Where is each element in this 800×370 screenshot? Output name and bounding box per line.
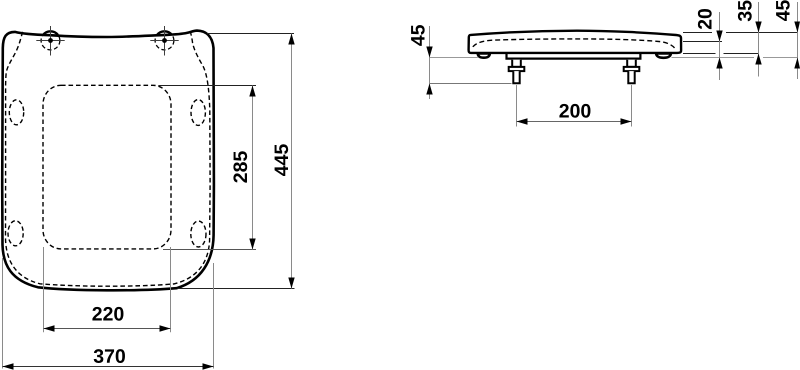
hinge hole left: center cross vertical xyxy=(50,26,52,56)
dimension 200: text xyxy=(559,104,590,118)
extension line right for 370 xyxy=(213,263,215,369)
extension line B from seat lip right (y=41.2) xyxy=(683,41,722,43)
bumper left (side view) xyxy=(478,53,490,57)
extension line A from seat top right (y=32) xyxy=(683,32,798,34)
hinge hole left: center dot xyxy=(48,38,53,43)
bolt right (side view): shaft xyxy=(628,71,634,83)
dimension 45 left: lower arrow (points up to 83.3) xyxy=(426,84,432,95)
extension line left for 220 xyxy=(43,247,45,332)
extension line from seat bottom edge (445 bottom reference) xyxy=(178,288,295,290)
dimension 445: text xyxy=(275,144,289,176)
dimension 45 right: text xyxy=(776,0,790,21)
dimension 45 right: line xyxy=(797,2,799,79)
extension line left for 370 xyxy=(2,258,4,369)
dimension 285: bottom arrow xyxy=(249,239,255,250)
dimension 445: bottom arrow xyxy=(288,278,294,289)
bumper right (side view) xyxy=(656,53,671,57)
extension line seat bottom plane left (45 top reference) xyxy=(430,57,478,59)
dimension 35: upper arrow (points down to y=31.9) xyxy=(755,22,761,33)
dimension 45 right: upper arrow (points down to y=31.9) xyxy=(794,22,800,33)
dimension 35: line xyxy=(758,2,760,77)
bolt left (side view): flange xyxy=(509,67,525,71)
hinge hole right: center cross horizontal xyxy=(150,40,178,42)
extension line right for 220 xyxy=(170,247,172,332)
dimension 445: top arrow xyxy=(288,34,294,45)
dimension 370: left arrow xyxy=(3,363,14,369)
dimension 220: line xyxy=(44,328,171,330)
bumper top-left (dashed ellipse) xyxy=(9,100,23,125)
dimension 370: text xyxy=(94,349,125,363)
hinge hole right: dashed circle xyxy=(155,31,174,50)
hinge hole left: dashed circle xyxy=(41,31,60,50)
dimension 45 left: line xyxy=(429,26,431,99)
dimension 370: line xyxy=(3,366,214,368)
seat outer outline (top view) xyxy=(2,31,214,291)
bolt right (side view): stem xyxy=(627,60,636,67)
dimension 45 left: text xyxy=(411,25,425,46)
dimension 20: upper arrow (points down to y=41.2) xyxy=(716,31,722,42)
dimension 35: lower arrow (points up to y=53) xyxy=(755,54,761,65)
bumper top-right (dashed ellipse) xyxy=(191,100,205,126)
dimension 200: right arrow xyxy=(621,118,632,124)
hinge plate under seat (side view) xyxy=(507,54,641,59)
extension line right bolt (200 right reference) xyxy=(631,85,633,127)
bumper bottom-right (dashed ellipse) xyxy=(191,221,206,247)
bolt left (side view): shaft xyxy=(513,71,519,83)
extension line bolt bottom (45 bottom reference) xyxy=(430,83,512,85)
dimension 200: left arrow xyxy=(517,118,528,124)
dimension 445: line xyxy=(291,34,293,289)
hinge hole right: solid top arc xyxy=(157,31,172,35)
dimension 285: line xyxy=(252,86,254,250)
dimension 45 right: lower arrow (points up to y=57.5) xyxy=(794,58,800,69)
seat opening dashed outline (top view) xyxy=(43,85,171,249)
dimension 220: right arrow xyxy=(160,325,171,331)
extension line left bolt (200 left reference) xyxy=(516,85,518,127)
dimension 45 left: upper arrow (points down to 57.2) xyxy=(426,47,432,58)
dimension 20: text xyxy=(698,9,712,29)
extension line D seat plane right (y=57.5) xyxy=(672,57,798,59)
dimension 285: top arrow xyxy=(249,86,255,97)
extension line from seat top edge (445 top reference) xyxy=(207,33,294,35)
extension line C from seat bottom right (y=53) xyxy=(683,53,759,55)
bumper bottom-left (dashed ellipse) xyxy=(8,221,23,246)
extension line from opening top edge (285 top reference) xyxy=(158,85,256,87)
seat ring dashed outline (top view) xyxy=(6,32,211,286)
dimension 200: line xyxy=(517,121,632,123)
dimension 220: text xyxy=(92,307,123,321)
hinge hole left: solid top arc xyxy=(43,31,58,35)
dimension 35: text xyxy=(738,1,752,22)
bolt left (side view): stem xyxy=(512,60,521,67)
hinge hole right: center cross vertical xyxy=(164,26,166,56)
dimension 370: right arrow xyxy=(203,363,214,369)
dimension 220: left arrow xyxy=(44,325,55,331)
dimension 20: line xyxy=(719,12,721,80)
bolt right (side view): flange xyxy=(624,67,640,71)
hinge hole left: center cross horizontal xyxy=(36,40,64,42)
seat profile dashed inner line (side view) xyxy=(473,39,676,50)
seat profile outline (side view) xyxy=(469,31,681,53)
dimension 20: lower arrow (points up to y=57.5) xyxy=(716,58,722,69)
hinge hole right: center dot xyxy=(162,38,167,43)
extension line from opening bottom edge (285 bottom reference) xyxy=(163,249,256,251)
dimension 285: text xyxy=(233,151,247,182)
